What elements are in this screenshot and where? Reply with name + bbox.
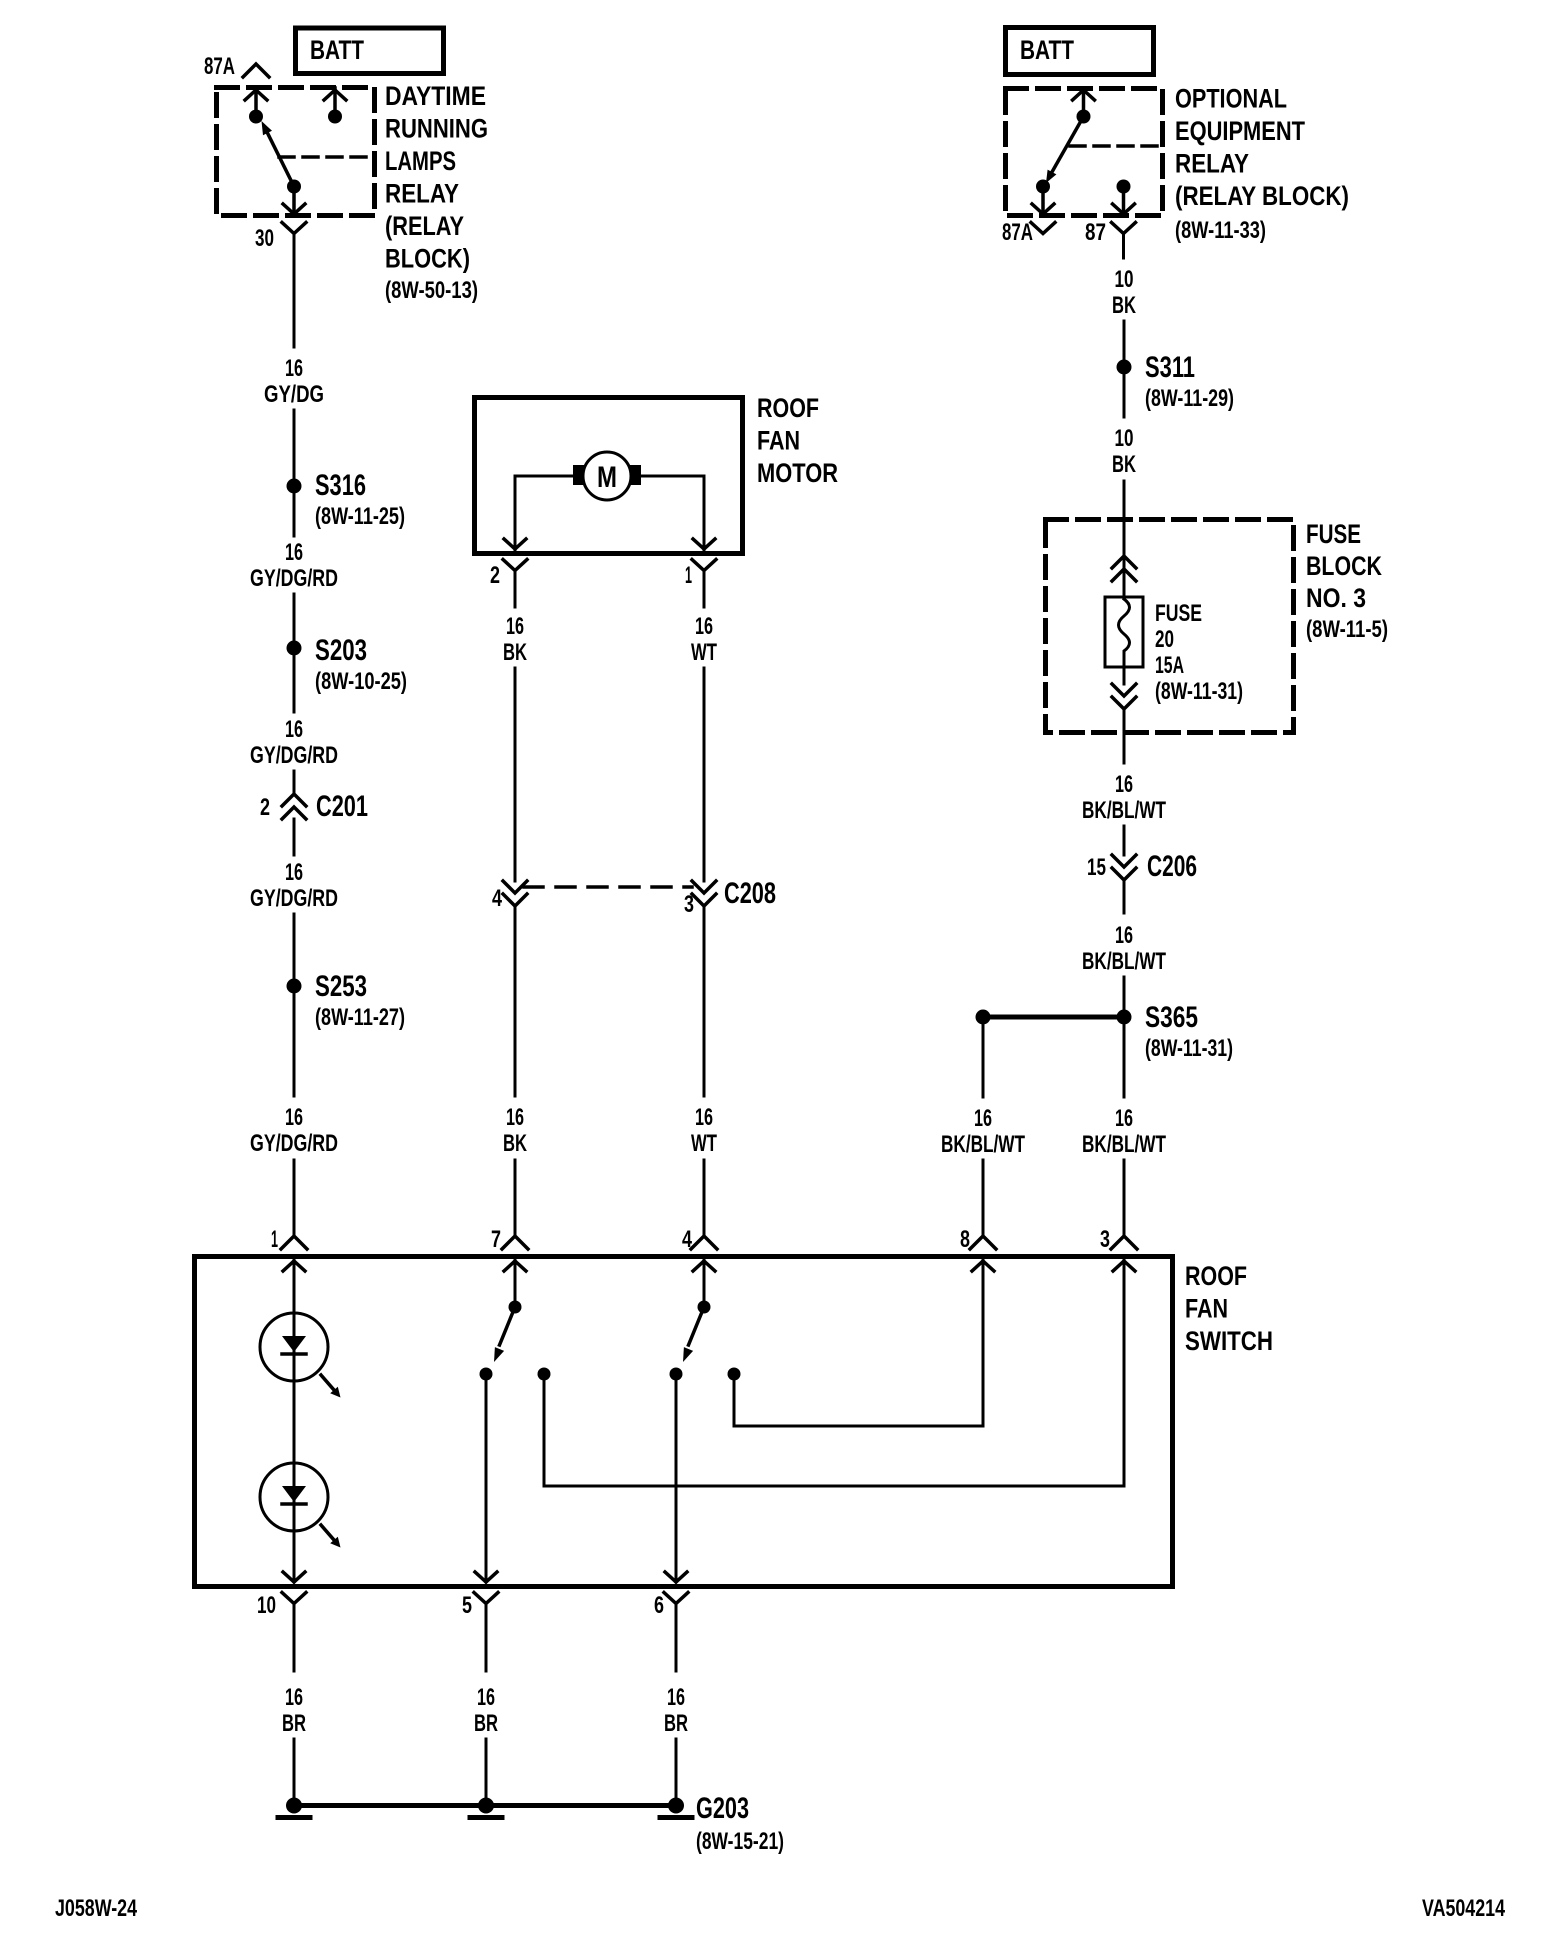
svg-text:10: 10: [1115, 425, 1134, 452]
wire S365 right branch down: [1123, 1025, 1126, 1097]
svg-text:16: 16: [285, 1684, 303, 1711]
relay K1 pin 87A terminal (connector half above box): [243, 64, 269, 77]
in-line connector C201 pin 2 (double chevron): [282, 794, 306, 806]
relay K2 OPTIONAL EQUIPMENT RELAY dashed outline (relay block): [1006, 89, 1163, 216]
svg-text:SWITCH: SWITCH: [1185, 1326, 1273, 1356]
wire to switch pin 1: [293, 1160, 296, 1236]
switch pin 5 connector (exit): [475, 1572, 486, 1582]
power feed box BATT (right): [1006, 28, 1154, 75]
svg-text:6: 6: [654, 1592, 664, 1619]
svg-text:3: 3: [1100, 1226, 1110, 1253]
wire pin 5 to ground: [485, 1739, 488, 1797]
in-line connector C208 pin 3 (double chevron): [692, 881, 716, 893]
svg-text:8: 8: [960, 1226, 970, 1253]
switch wire to pin 6: [675, 1374, 678, 1581]
ground G203 dot 1: [286, 1798, 302, 1814]
svg-text:S253: S253: [315, 970, 367, 1003]
wire WT below C208: [703, 906, 706, 1096]
in-line connector C206 pin 15 (double chevron): [1112, 855, 1136, 867]
svg-text:4: 4: [492, 885, 502, 912]
wire S203 down: [293, 656, 296, 712]
svg-text:RELAY: RELAY: [385, 179, 459, 209]
svg-text:OPTIONAL: OPTIONAL: [1175, 84, 1287, 114]
switch pin 7 connector (entry): [502, 1236, 528, 1249]
svg-text:C208: C208: [724, 877, 776, 910]
motor internal wire to pin 2: [515, 476, 573, 550]
motor internal wire to pin 1: [641, 476, 704, 550]
svg-text:BK: BK: [503, 1130, 527, 1157]
switch contact 2 lower dot: [670, 1368, 683, 1381]
relay K2 pin 87 terminal post: [1122, 187, 1126, 216]
svg-text:16: 16: [477, 1684, 495, 1711]
wire left column to S316: [293, 410, 296, 478]
svg-text:S365: S365: [1145, 1001, 1198, 1034]
svg-text:10: 10: [257, 1592, 276, 1619]
switch pin 10 connector (exit): [283, 1572, 294, 1582]
svg-text:EQUIPMENT: EQUIPMENT: [1175, 116, 1305, 146]
ground bus tie line: [294, 1803, 676, 1808]
svg-text:BR: BR: [282, 1710, 306, 1737]
relay K2 pin 87A contact dot: [1036, 180, 1050, 194]
illumination LED DS1 circle: [260, 1313, 328, 1381]
wire to S253: [293, 914, 296, 978]
fuse F20 element squiggle: [1119, 599, 1130, 665]
svg-text:87A: 87A: [204, 53, 235, 80]
switch pin 1 connector (entry): [281, 1236, 307, 1249]
relay K2 battery-side terminal post: [1082, 88, 1086, 112]
svg-text:NO. 3: NO. 3: [1306, 583, 1366, 613]
svg-text:15: 15: [1087, 854, 1106, 881]
svg-text:16: 16: [285, 716, 303, 743]
svg-text:WT: WT: [691, 639, 717, 666]
splice S311: [1117, 360, 1132, 375]
relay K2 inner dashed divider: [1070, 144, 1162, 148]
svg-text:(8W-50-13): (8W-50-13): [385, 277, 478, 304]
switch internal node dot (to pin 3): [538, 1368, 551, 1381]
wire out of fuse block: [1123, 667, 1126, 684]
svg-text:GY/DG: GY/DG: [264, 381, 324, 408]
illumination LED DS2 circle: [260, 1463, 328, 1531]
svg-text:BR: BR: [664, 1710, 688, 1737]
fuse block terminal (double chevron up): [1112, 556, 1136, 568]
relay K2 battery-side contact dot: [1077, 110, 1091, 124]
fuse block no.3 dashed outline: [1046, 520, 1294, 733]
svg-text:LAMPS: LAMPS: [385, 146, 456, 176]
relay K1 pin 30 connector half below box: [282, 223, 306, 234]
svg-text:GY/DG/RD: GY/DG/RD: [250, 885, 338, 912]
svg-text:3: 3: [684, 891, 694, 918]
svg-text:ROOF: ROOF: [1185, 1261, 1247, 1291]
ground G203 bar 1: [278, 1815, 310, 1820]
svg-text:(8W-11-27): (8W-11-27): [315, 1004, 405, 1031]
switch pin 6 connector (exit): [665, 1572, 676, 1582]
svg-text:7: 7: [491, 1226, 501, 1253]
svg-text:87A: 87A: [1002, 219, 1033, 246]
svg-text:(8W-11-33): (8W-11-33): [1175, 217, 1266, 244]
svg-text:FAN: FAN: [757, 426, 800, 456]
in-line connector C208 pin 4 (double chevron): [503, 881, 527, 893]
svg-text:BK/BL/WT: BK/BL/WT: [1082, 1131, 1166, 1158]
switch pin 4 connector (entry): [691, 1236, 717, 1249]
svg-text:(8W-11-5): (8W-11-5): [1306, 616, 1388, 643]
relay K1 pin 30 terminal post: [292, 187, 296, 216]
wire BK down to C208: [514, 668, 517, 881]
svg-text:16: 16: [695, 613, 713, 640]
switch contact 2 feed wire from pin 4: [703, 1259, 706, 1301]
ROOF FAN SWITCH box: [195, 1257, 1173, 1587]
ground G203 dot 2: [478, 1798, 494, 1814]
LED DS1 diode triangle: [282, 1336, 306, 1352]
svg-text:RUNNING: RUNNING: [385, 114, 488, 144]
wire pin 10 to ground: [293, 1739, 296, 1797]
svg-text:FUSE: FUSE: [1306, 519, 1361, 549]
wire to S203: [293, 594, 296, 640]
svg-text:BLOCK): BLOCK): [385, 244, 470, 274]
wire into fuse block: [1123, 481, 1126, 597]
svg-text:BATT: BATT: [310, 35, 364, 65]
svg-text:16: 16: [974, 1105, 992, 1132]
wire S316 down: [293, 494, 296, 536]
svg-text:2: 2: [260, 794, 270, 821]
wire WT down to C208: [703, 668, 706, 881]
svg-text:BLOCK: BLOCK: [1306, 551, 1382, 581]
svg-text:BR: BR: [474, 1710, 498, 1737]
svg-text:(8W-11-31): (8W-11-31): [1155, 678, 1243, 705]
motor brush (left): [573, 465, 584, 485]
LED DS1 cathode bar: [282, 1352, 306, 1356]
splice S316: [287, 479, 302, 494]
svg-text:(8W-11-25): (8W-11-25): [315, 503, 405, 530]
switch contact 1 pivot dot: [509, 1301, 522, 1314]
svg-text:M: M: [597, 461, 617, 494]
svg-text:BATT: BATT: [1020, 35, 1074, 65]
motor brush (right): [630, 465, 641, 485]
svg-text:S311: S311: [1145, 351, 1195, 384]
relay K1 inner dashed coil/contact divider: [279, 155, 374, 159]
svg-text:DAYTIME: DAYTIME: [385, 81, 486, 111]
svg-text:(RELAY: (RELAY: [385, 211, 464, 241]
svg-text:C201: C201: [316, 790, 368, 823]
svg-text:S203: S203: [315, 634, 367, 667]
relay K1 common contact dot: [287, 180, 301, 194]
switch contact 1 lower dot: [480, 1368, 493, 1381]
relay K2 pin 87 connector half below box: [1112, 223, 1136, 234]
svg-text:GY/DG/RD: GY/DG/RD: [250, 742, 338, 769]
wire to S365: [1123, 977, 1126, 1009]
svg-text:MOTOR: MOTOR: [757, 458, 838, 488]
svg-text:87: 87: [1085, 219, 1106, 246]
wire to C206: [1123, 826, 1126, 855]
wire S253 down: [293, 994, 296, 1096]
svg-text:BK: BK: [503, 639, 527, 666]
wire S365 left branch down: [982, 1025, 985, 1097]
svg-text:(8W-15-21): (8W-15-21): [696, 1828, 784, 1855]
connector C208 dashed tie line: [524, 885, 692, 889]
svg-text:16: 16: [506, 1104, 524, 1131]
svg-text:BK/BL/WT: BK/BL/WT: [941, 1131, 1025, 1158]
motor M armature circle: [583, 452, 631, 500]
switch contact 2 blade with arrow: [689, 1307, 705, 1345]
relay K1 battery-side terminal post: [333, 88, 337, 112]
switch internal wire to pin 8: [734, 1259, 983, 1426]
splice S253: [287, 979, 302, 994]
switch pin 3 connector (entry): [1111, 1236, 1137, 1249]
svg-text:(8W-10-25): (8W-10-25): [315, 668, 407, 695]
relay K1 battery-side contact dot: [328, 110, 342, 124]
svg-text:C206: C206: [1147, 850, 1197, 883]
splice S365: [1117, 1010, 1132, 1025]
svg-text:BK/BL/WT: BK/BL/WT: [1082, 797, 1166, 824]
svg-text:16: 16: [285, 859, 303, 886]
switch contact 1 feed wire from pin 7: [514, 1259, 517, 1301]
switch contact 1 blade with arrow: [500, 1307, 516, 1345]
svg-text:16: 16: [506, 613, 524, 640]
relay K2 pin 87A connector half below box (unused): [1031, 223, 1055, 234]
svg-text:ROOF: ROOF: [757, 393, 819, 423]
wire to C201: [293, 771, 296, 794]
svg-text:BK: BK: [1112, 451, 1136, 478]
svg-text:16: 16: [1115, 1105, 1133, 1132]
ground G203 dot 3: [668, 1798, 684, 1814]
relay K1 pin 87A contact dot: [249, 110, 263, 124]
fuse F20 body: [1105, 597, 1143, 667]
fuse block terminal (double chevron down): [1112, 684, 1136, 696]
LED DS2 diode triangle: [282, 1486, 306, 1502]
svg-text:30: 30: [255, 225, 274, 252]
LED DS2 emission arrow: [321, 1525, 334, 1540]
svg-text:16: 16: [285, 539, 303, 566]
LED DS2 cathode bar: [282, 1502, 306, 1506]
wire to S311: [1123, 321, 1126, 359]
svg-text:16: 16: [285, 1104, 303, 1131]
LED DS1 emission arrow: [321, 1375, 334, 1390]
svg-text:BK: BK: [1112, 292, 1136, 319]
svg-text:16: 16: [1115, 922, 1133, 949]
svg-text:J058W-24: J058W-24: [55, 1895, 137, 1922]
svg-text:(8W-11-31): (8W-11-31): [1145, 1035, 1233, 1062]
relay K1 DAYTIME RUNNING LAMPS RELAY dashed outline (relay block): [217, 88, 375, 216]
svg-text:1: 1: [271, 1226, 278, 1253]
svg-text:G203: G203: [696, 1792, 749, 1825]
svg-text:15A: 15A: [1155, 652, 1184, 679]
relay K1 switch blade (arrow toward 87A contact): [268, 133, 295, 187]
motor pin 2 connector half below box: [503, 560, 527, 571]
switch internal node dot (to pin 8): [728, 1368, 741, 1381]
svg-text:GY/DG/RD: GY/DG/RD: [250, 565, 338, 592]
switch internal wire to pin 3: [544, 1259, 1124, 1486]
svg-text:16: 16: [285, 355, 303, 382]
relay K2 pin 87A terminal post: [1041, 187, 1045, 216]
svg-text:FAN: FAN: [1185, 1294, 1228, 1324]
svg-text:10: 10: [1115, 266, 1134, 293]
relay K1 pin 87A terminal post: [254, 88, 258, 112]
splice S203: [287, 641, 302, 656]
svg-text:VA504214: VA504214: [1422, 1895, 1505, 1922]
svg-text:RELAY: RELAY: [1175, 149, 1249, 179]
svg-text:16: 16: [695, 1104, 713, 1131]
wire pin 6 to ground: [675, 1739, 678, 1797]
ground G203 bar 3: [660, 1815, 692, 1820]
svg-text:(RELAY BLOCK): (RELAY BLOCK): [1175, 181, 1349, 211]
svg-text:S316: S316: [315, 469, 366, 502]
switch pin 8 connector (entry): [970, 1236, 996, 1249]
switch contact 2 pivot dot: [698, 1301, 711, 1314]
relay K2 pin 87 contact dot: [1117, 180, 1131, 194]
power feed box BATT (left): [296, 28, 444, 74]
svg-text:WT: WT: [691, 1130, 717, 1157]
wire BK below C208: [514, 906, 517, 1096]
wire S311 down: [1123, 375, 1126, 417]
splice S365 tie line: [983, 1015, 1124, 1020]
switch wire to pin 5: [485, 1374, 488, 1581]
motor pin 1 connector half below box: [692, 560, 716, 571]
ground G203 bar 2: [470, 1815, 502, 1820]
svg-text:5: 5: [462, 1592, 472, 1619]
relay K2 switch blade (arrow toward 87A contact): [1052, 117, 1084, 173]
svg-text:FUSE: FUSE: [1155, 600, 1202, 627]
svg-text:BK/BL/WT: BK/BL/WT: [1082, 948, 1166, 975]
svg-text:2: 2: [490, 562, 500, 589]
svg-text:16: 16: [667, 1684, 685, 1711]
svg-text:16: 16: [1115, 771, 1133, 798]
svg-text:1: 1: [685, 562, 692, 589]
ROOF FAN MOTOR box: [475, 398, 743, 554]
svg-text:(8W-11-29): (8W-11-29): [1145, 385, 1234, 412]
switch illumination wire pin 1 to pin 10: [293, 1259, 296, 1581]
svg-text:20: 20: [1155, 626, 1174, 653]
svg-text:GY/DG/RD: GY/DG/RD: [250, 1130, 338, 1157]
splice S365 branch dot: [976, 1010, 991, 1025]
svg-text:4: 4: [682, 1226, 692, 1253]
